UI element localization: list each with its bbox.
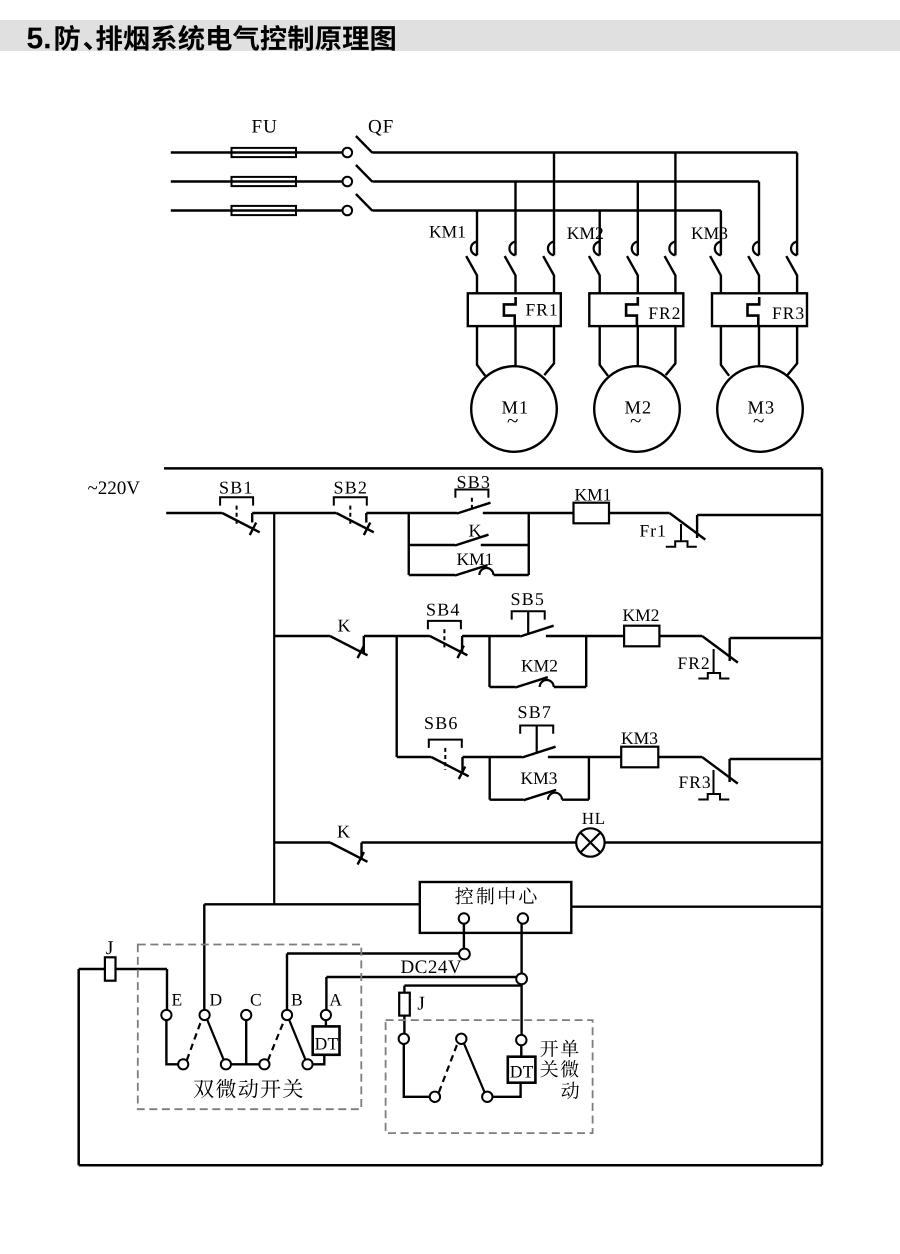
relay contact K blade	[455, 535, 489, 546]
control supply top rail	[164, 467, 822, 470]
contactor KM2 main contact pole 3 blade	[665, 256, 676, 276]
label KM2 (main contacts)	[567, 227, 602, 239]
wire FR2 to motor M2 middle	[637, 326, 639, 366]
contactor coil KM3	[621, 747, 658, 768]
contactor aux contact KM1 (self-holding)	[455, 565, 488, 575]
contactor KM3 main contact pole 1 blade	[710, 256, 721, 276]
wire branch 3 conductor 3 to FR box	[796, 276, 798, 294]
wire left rail horizontal to control center	[204, 903, 419, 905]
wire DT2 top to right terminal	[520, 1045, 522, 1056]
breaker QF pole 2 pivot circle	[343, 177, 353, 187]
pushbutton SB3 label	[458, 476, 489, 488]
label 开单关微动	[540, 1040, 578, 1057]
branch wire to K contact	[409, 544, 455, 546]
row4 wire from left rail	[274, 841, 330, 843]
row2-row3 junction vertical	[396, 636, 398, 757]
row3 wire SB6 to SB7	[463, 756, 523, 758]
breaker QF pole 3 pivot circle	[343, 206, 353, 216]
branch wire to KM1 aux contact	[409, 574, 455, 576]
phase line L1 bus	[372, 151, 797, 153]
pushbutton SB1 NC contact	[222, 513, 260, 532]
wire down to terminal D	[203, 904, 205, 1010]
phase line L2 lead-in	[171, 180, 343, 182]
motor M2 circle	[594, 366, 680, 452]
row4 wire lamp to right rail	[605, 841, 822, 843]
label FR2	[649, 307, 680, 319]
label B	[292, 994, 302, 1006]
branch wire to KM3 aux contact	[490, 799, 524, 801]
branch wire KM1 aux to right vertical	[494, 574, 529, 576]
contactor KM3 main contact pole 3 blade	[786, 256, 797, 276]
pushbutton SB7 NO contact	[522, 747, 556, 758]
contactor coil KM1 label	[575, 489, 610, 501]
label KM3 (main contacts)	[692, 227, 728, 239]
control center right terminal	[518, 913, 528, 923]
label ~220V	[88, 481, 140, 494]
row2 wire from left rail	[274, 635, 330, 637]
pushbutton SB1 cap	[220, 497, 253, 505]
wire branch 2 conductor 3 to FR box	[674, 276, 676, 294]
row2 wire coil KM2 to FR2	[659, 635, 702, 637]
wire FR3 to motor M3 left	[721, 326, 729, 376]
wire branch 1 conductor 2 to FR box	[514, 276, 516, 294]
dashed blade pivot3 to B	[268, 1020, 284, 1060]
breaker QF pole 1 blade	[356, 136, 373, 153]
contactor aux contact KM3 label	[521, 772, 557, 784]
right vertical rail	[821, 468, 824, 1165]
wire branch 2 conductor 1 drop	[599, 211, 601, 256]
label QF	[369, 120, 393, 136]
wire A riser	[325, 977, 327, 1010]
label J (right)	[418, 997, 425, 1010]
contactor KM2 main contact pole 3 arc	[669, 242, 675, 256]
wire FR3 to motor M3 middle	[758, 326, 760, 366]
solid blade to right pivot	[464, 1044, 485, 1093]
terminal A circle	[321, 1010, 331, 1020]
wire branch 3 conductor 2 to FR box	[758, 276, 760, 294]
wire branch 1 conductor 1 to FR box	[476, 276, 478, 294]
dashed box 双微动开关 (double micro switch)	[138, 945, 361, 1110]
label A	[329, 994, 341, 1006]
electromagnet DT2 box	[508, 1057, 536, 1083]
label M2	[625, 401, 650, 413]
contactor coil KM1	[574, 503, 610, 524]
node under left terminal	[459, 949, 470, 960]
fuse FU pole 2	[232, 177, 297, 186]
wire branch 1 conductor 3 to FR box	[553, 276, 555, 294]
wire branch 2 conductor 2 to FR box	[637, 276, 639, 294]
label C	[251, 994, 261, 1006]
micro switch pivot 1	[178, 1059, 188, 1069]
wire E riser down	[166, 969, 168, 1010]
thermal relay contact FR2	[702, 636, 738, 663]
contactor coil KM3 label	[622, 732, 658, 744]
fuse FU pole 3	[232, 206, 297, 215]
thermal relay FR1 heater element	[504, 297, 516, 325]
micro switch pivot 3	[259, 1059, 269, 1069]
contactor KM3 main contact pole 3 arc	[791, 242, 797, 256]
relay contact K row2 label	[338, 620, 350, 632]
contactor KM3 main contact pole 1 arc	[715, 242, 721, 256]
single switch pivot left	[430, 1092, 440, 1102]
pushbutton SB6 NC contact	[431, 757, 469, 776]
bottom rail	[79, 1164, 822, 1167]
label M1 tilde	[508, 419, 518, 423]
thermal relay contact Fr1	[670, 513, 706, 540]
row2 wire K to SB4	[364, 635, 430, 637]
left bottom vertical rail	[77, 969, 80, 1165]
wire control center right edge to right rail	[571, 906, 822, 908]
label FR3	[773, 307, 804, 319]
lamp HL label	[582, 813, 604, 824]
label M3	[748, 401, 773, 413]
wire branch 2 conductor 2 drop	[637, 182, 639, 256]
phase line L3 lead-in	[171, 209, 343, 211]
wire J left to E riser	[116, 968, 168, 970]
wire right pivot to DT2	[493, 1083, 521, 1097]
wire to relay J top	[403, 986, 405, 993]
terminal D circle	[200, 1010, 210, 1020]
breaker QF pole 2 blade	[356, 165, 373, 182]
relay coil J (right)	[399, 993, 410, 1016]
pushbutton SB5 NO contact	[520, 626, 554, 637]
wire FR3 to motor M3 right	[787, 326, 797, 375]
parallel block right vertical	[528, 513, 530, 575]
label D	[210, 994, 221, 1005]
relay contact K row4	[330, 843, 368, 862]
dashed box 单开关微动 (single micro switch)	[386, 1020, 593, 1133]
thermal relay FR3 box	[712, 293, 807, 326]
contactor KM2 main contact pole 2 arc	[632, 242, 638, 256]
contactor coil KM2 label	[623, 609, 658, 621]
relay contact K row2 (NC style blade)	[330, 636, 368, 655]
label J (left)	[106, 941, 113, 954]
label FU	[252, 120, 276, 133]
wire pivot4 to DT1	[313, 1055, 325, 1065]
pushbutton SB1 label	[220, 482, 251, 494]
electromagnet DT1 box	[313, 1026, 340, 1054]
contactor KM1 main contact pole 1 arc	[471, 242, 477, 256]
micro switch pivot 2	[221, 1059, 231, 1069]
wire A to DT1	[325, 1020, 327, 1026]
left rail vertical (row1 junction down to control center level)	[273, 513, 275, 904]
breaker QF pole 1 pivot circle	[343, 148, 353, 158]
row4 wire K to lamp HL	[362, 841, 577, 843]
wire E to pivot1	[166, 1020, 178, 1064]
row3 wire coil KM3 to FR3	[658, 756, 702, 758]
row2 wire SB4 to SB5	[462, 635, 520, 637]
contactor KM3 main contact pole 2 arc	[753, 242, 759, 256]
contactor KM3 main contact pole 2 blade	[748, 256, 759, 276]
wire branch 2 conductor 1 to FR box	[599, 276, 601, 294]
wire node down to single micro switch	[520, 984, 522, 1035]
pushbutton SB4 NC contact	[430, 636, 468, 655]
label 双微动开关	[194, 1079, 303, 1098]
pushbutton SB5 cap	[512, 611, 545, 619]
terminal C circle	[241, 1010, 251, 1020]
wire pivot2 to pivot3	[231, 1063, 259, 1065]
relay coil J (left)	[105, 957, 116, 980]
label 控制中心	[455, 887, 536, 904]
wire branch 1 conductor 2 drop	[514, 182, 516, 256]
wire FR2 to motor M2 right	[666, 326, 676, 375]
wire FR1 to motor M1 right	[544, 326, 554, 375]
contactor aux contact KM1 label	[457, 553, 492, 565]
terminal B circle	[282, 1010, 292, 1020]
contactor aux contact KM3 (self-holding)	[524, 790, 557, 800]
motor M1 circle	[471, 366, 557, 452]
pushbutton SB6 label	[425, 717, 457, 729]
contactor KM1 main contact pole 1 blade	[466, 256, 477, 276]
wire branch 3 conductor 2 drop	[758, 182, 760, 256]
contactor aux contact KM2 (self-holding)	[515, 677, 548, 687]
row1 wire Fr1 to right rail	[697, 514, 822, 516]
single switch top pivot	[456, 1034, 466, 1044]
relay contact K (self-hold branch) label	[469, 525, 481, 537]
contactor aux contact KM2 label	[522, 660, 557, 672]
contactor coil KM2	[624, 626, 659, 647]
pushbutton SB2 cap	[334, 497, 367, 505]
thermal relay FR2 heater element	[626, 297, 638, 325]
thermal relay FR2 box	[589, 293, 683, 326]
wire FR1 to motor M1 middle	[514, 326, 516, 366]
wire control center left terminal down	[463, 924, 465, 949]
wire control center right terminal down	[520, 924, 522, 974]
wire FR2 to motor M2 left	[600, 326, 608, 376]
label M1	[502, 401, 527, 413]
dashed blade pivot1 to D	[187, 1020, 202, 1060]
wire branch 2 conductor 3 drop	[674, 153, 676, 256]
pushbutton SB2 NC contact	[336, 513, 374, 532]
row2 wire FR2 to right rail	[730, 637, 822, 639]
phase line L2 bus	[372, 180, 759, 182]
row1 wire from left	[166, 512, 222, 514]
row1 wire SB2 to parallel block	[366, 512, 457, 514]
fuse FU pole 1	[232, 148, 297, 157]
wire DC24V to A riser	[326, 976, 516, 978]
single switch left terminal	[399, 1034, 409, 1044]
terminal E circle	[161, 1010, 171, 1020]
wire relay J branch horizontal	[404, 984, 521, 986]
title bar background	[0, 20, 900, 51]
branch wire KM3 aux to right vertical	[562, 799, 589, 801]
breaker QF pole 3 blade	[356, 194, 373, 211]
pushbutton SB2 label	[335, 482, 366, 494]
wire branch 3 conductor 1 to FR box	[720, 276, 722, 294]
solid blade D to pivot2	[207, 1020, 224, 1060]
contactor KM2 main contact pole 2 blade	[627, 256, 638, 276]
label DT2	[510, 1066, 533, 1077]
thermal relay FR1 box	[468, 293, 561, 326]
label FR1	[526, 304, 557, 316]
row1 wire coil KM1 to Fr1	[609, 512, 670, 514]
single switch right terminal	[516, 1035, 526, 1045]
label KM1 (main contacts)	[430, 226, 465, 238]
single switch pivot right	[482, 1092, 492, 1102]
wire relay J bottom to terminal	[403, 1016, 405, 1034]
wire FR1 to motor M1 left	[477, 326, 485, 376]
pushbutton SB3 NO contact	[457, 503, 491, 514]
label M3 tilde	[754, 419, 764, 423]
pushbutton SB4 label	[427, 604, 459, 616]
micro switch pivot 4	[302, 1059, 312, 1069]
wire C down	[245, 1020, 247, 1064]
row3 wire SB7 to coil KM3	[548, 756, 621, 758]
pushbutton SB5 label	[512, 593, 543, 605]
contactor KM2 main contact pole 1 arc	[594, 242, 600, 256]
lamp HL	[576, 828, 604, 856]
row1 wire SB3 to coil KM1	[483, 512, 574, 514]
relay contact K row4 label	[338, 826, 350, 838]
label DC24V	[401, 960, 461, 973]
contactor KM1 main contact pole 3 arc	[548, 242, 554, 256]
pushbutton SB6 cap	[429, 740, 462, 748]
row3 wire from junction vertical	[397, 756, 432, 758]
wire branch 3 conductor 3 drop	[796, 153, 798, 256]
node DC24V junction	[516, 974, 527, 985]
branch wire KM2 aux to right vertical	[554, 686, 586, 688]
branch wire to KM2 aux contact	[490, 686, 516, 688]
title text 5.防、排烟系统电气控制原理图	[27, 28, 49, 49]
control center left terminal	[459, 913, 469, 923]
pushbutton SB7 cap	[520, 726, 553, 734]
control center box 控制中心	[420, 882, 572, 933]
wire B riser	[286, 954, 288, 1011]
label M2 tilde	[631, 419, 641, 423]
branch wire K to right vertical	[481, 544, 529, 546]
wire node to B riser	[287, 952, 459, 954]
contactor KM1 main contact pole 3 blade	[543, 256, 554, 276]
phase line L3 bus	[372, 209, 721, 211]
KM2 branch right vertical	[585, 636, 587, 687]
wire branch 1 conductor 3 drop	[553, 153, 555, 256]
wire branch 3 conductor 1 drop	[720, 211, 722, 256]
solid blade B to pivot4	[289, 1020, 305, 1060]
pushbutton SB7 label	[519, 706, 551, 718]
dashed blade to top pivot	[439, 1044, 458, 1093]
contactor KM1 main contact pole 2 arc	[509, 242, 515, 256]
pushbutton SB4 cap	[428, 621, 461, 629]
label E	[172, 994, 181, 1005]
motor M3 circle	[717, 366, 803, 452]
row3 wire FR3 to right rail	[730, 758, 822, 760]
wire branch 1 conductor 1 drop	[476, 211, 478, 256]
pushbutton SB3 cap	[455, 490, 488, 498]
contactor KM1 main contact pole 2 blade	[505, 256, 516, 276]
relay coil J (left) wire from bottom-left rail	[79, 968, 105, 970]
row1 wire SB1 to SB2	[252, 512, 336, 514]
phase line L1 lead-in	[171, 151, 343, 153]
thermal relay contact FR3	[702, 757, 738, 784]
contactor KM2 main contact pole 1 blade	[589, 256, 600, 276]
row2 wire SB5 to coil KM2	[546, 635, 624, 637]
KM3 branch right vertical	[588, 757, 590, 800]
KM2 branch left vertical	[488, 636, 490, 687]
thermal relay FR3 heater element	[748, 297, 760, 325]
label DT1	[315, 1038, 338, 1049]
KM3 branch left vertical	[489, 757, 491, 800]
parallel block left vertical	[408, 513, 410, 575]
wire left terminal down	[404, 1044, 430, 1097]
